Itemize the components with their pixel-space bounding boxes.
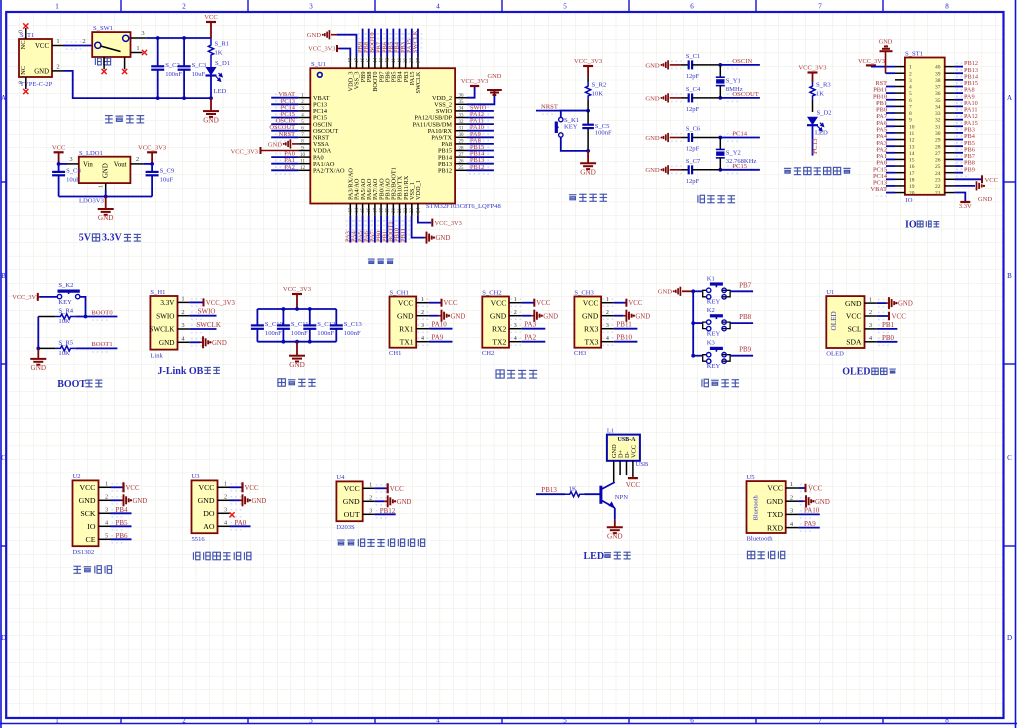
U1 right pin 35 VSS_2 bbox=[455, 103, 467, 105]
capacitor S_C9 10uF bbox=[151, 164, 153, 172]
U1 right pin 31 PA10/RX bbox=[455, 130, 467, 132]
svg-text:S_CH2: S_CH2 bbox=[482, 289, 501, 296]
svg-text:OUT: OUT bbox=[344, 510, 360, 519]
svg-text:1: 1 bbox=[790, 481, 793, 488]
U1 left pin 6 OSCOUT bbox=[298, 130, 310, 132]
key bus vertical wire bbox=[692, 291, 694, 355]
svg-text:25: 25 bbox=[459, 166, 465, 171]
ST1 left pin 19 bbox=[895, 185, 905, 187]
svg-text:2: 2 bbox=[790, 494, 793, 501]
svg-text:28: 28 bbox=[935, 144, 941, 150]
wire + net label PB11 bbox=[886, 92, 895, 94]
U1 top pin 48 VDD_3 bbox=[349, 57, 351, 69]
wire + net label PA1 bbox=[886, 158, 895, 160]
svg-text:VCC: VCC bbox=[767, 484, 783, 493]
svg-text:100nF: 100nF bbox=[344, 330, 361, 337]
wire + net label PB10 bbox=[614, 341, 638, 343]
svg-text:3: 3 bbox=[141, 30, 144, 37]
ST1 right pin 33 bbox=[945, 112, 955, 114]
svg-text:8MHz: 8MHz bbox=[726, 86, 743, 93]
svg-text:22: 22 bbox=[935, 184, 941, 190]
svg-text:25: 25 bbox=[935, 164, 941, 170]
wire + net label PB1 bbox=[877, 328, 898, 330]
svg-text:GND: GND bbox=[198, 496, 215, 505]
svg-text:30: 30 bbox=[459, 133, 465, 138]
svg-text:USB: USB bbox=[636, 461, 649, 468]
key K1 PB7 bbox=[703, 290, 707, 297]
svg-text:24: 24 bbox=[416, 208, 421, 214]
svg-text:PB11: PB11 bbox=[616, 321, 632, 329]
LED S_D1 bbox=[206, 67, 217, 76]
U1 left pin 2 PC13 bbox=[298, 103, 310, 105]
svg-text:Bluetooth: Bluetooth bbox=[753, 494, 760, 520]
left vertical bus of boot circuit bbox=[37, 317, 39, 349]
svg-text:PC14: PC14 bbox=[732, 131, 747, 138]
svg-text:3.3V: 3.3V bbox=[160, 299, 175, 307]
wire + net label VBAT bbox=[271, 97, 298, 99]
power flag VCC_3V3 at U1 VDD_2 pin36 bbox=[467, 86, 475, 98]
svg-text:D203S: D203S bbox=[336, 524, 355, 531]
svg-text:S_C6: S_C6 bbox=[686, 126, 701, 133]
ground GND at S_CH3 bbox=[614, 315, 624, 317]
svg-text:40: 40 bbox=[398, 58, 403, 64]
power flag VCC below USB bbox=[632, 476, 634, 478]
svg-text:D: D bbox=[1, 634, 6, 642]
light sensor module U3 5516 bbox=[192, 480, 218, 533]
wire + net label PA5 bbox=[886, 132, 895, 134]
wire + net label OSCOUT bbox=[271, 130, 298, 132]
svg-text:4: 4 bbox=[606, 336, 609, 342]
ST1 left pin 18 bbox=[895, 178, 905, 180]
wire + net label PA15 bbox=[955, 125, 963, 127]
wire + net label PA11 bbox=[955, 112, 963, 114]
svg-text:1: 1 bbox=[869, 296, 872, 303]
net label NRST wire bbox=[536, 110, 588, 112]
emitter wire to ground bbox=[614, 508, 616, 520]
svg-text:VCC: VCC bbox=[79, 483, 95, 492]
svg-text:PB6: PB6 bbox=[116, 532, 129, 540]
L1 pin stubs bbox=[613, 461, 615, 482]
svg-text:4: 4 bbox=[514, 336, 517, 342]
ST1 left pin 12 bbox=[895, 139, 905, 141]
svg-text:3: 3 bbox=[790, 508, 793, 515]
LDO regulator S_LDO1 bbox=[79, 157, 131, 183]
svg-text:TYPE-C-2P: TYPE-C-2P bbox=[20, 81, 53, 88]
ST1 right pin 31 bbox=[945, 125, 955, 127]
capacitor S_C2 100nF bbox=[157, 38, 159, 66]
wire + net label PB12 bbox=[467, 169, 494, 171]
power flag VCC_3V3 at H1 pin1 bbox=[189, 301, 202, 303]
wire + net label PC13 bbox=[886, 185, 895, 187]
title jing-zhen-dian-lu crystal bbox=[698, 195, 705, 203]
ground GND at H1 pin4 bbox=[189, 341, 200, 343]
svg-text:34: 34 bbox=[459, 107, 465, 112]
wire + net label PA10 bbox=[955, 105, 963, 107]
svg-text:29: 29 bbox=[459, 140, 465, 145]
svg-text:1: 1 bbox=[224, 481, 227, 488]
svg-text:K2: K2 bbox=[707, 307, 715, 314]
svg-text:S_H1: S_H1 bbox=[150, 289, 165, 296]
svg-text:GND: GND bbox=[580, 169, 596, 177]
LDO GND pin stub bbox=[105, 183, 107, 190]
svg-text:PB0: PB0 bbox=[882, 334, 895, 342]
svg-text:18: 18 bbox=[909, 177, 915, 183]
ST1 right pin 28 bbox=[945, 145, 955, 147]
svg-text:SWCLK: SWCLK bbox=[149, 326, 175, 334]
svg-text:2: 2 bbox=[105, 494, 108, 501]
svg-text:GND: GND bbox=[203, 116, 219, 124]
svg-text:6: 6 bbox=[690, 717, 694, 725]
svg-text:35: 35 bbox=[935, 98, 941, 104]
capacitor S_C8 10uF bbox=[58, 164, 60, 172]
U1 right pin 26 PB13 bbox=[455, 163, 467, 165]
svg-text:3: 3 bbox=[606, 323, 609, 329]
svg-text:27: 27 bbox=[459, 153, 465, 158]
ST1 left pin 1 bbox=[895, 66, 905, 68]
ground GND at S_CH1 bbox=[429, 315, 439, 317]
svg-text:GND: GND bbox=[607, 533, 623, 541]
crystal S_Y2 32.768KHz bbox=[718, 136, 722, 140]
svg-text:VCC: VCC bbox=[344, 484, 360, 493]
svg-text:1: 1 bbox=[55, 3, 59, 11]
T1 pin 1 VCC stub bbox=[52, 45, 64, 47]
svg-text:L1: L1 bbox=[607, 428, 614, 435]
wire + vertical net label PA15 bbox=[411, 29, 413, 57]
svg-text:U2: U2 bbox=[73, 473, 81, 480]
U1 bottom pin 15 PA5/AO bbox=[362, 204, 364, 216]
LDO pin 2 stub bbox=[130, 163, 143, 165]
svg-text:S_C7: S_C7 bbox=[686, 158, 701, 165]
svg-text:RX2: RX2 bbox=[492, 324, 507, 333]
svg-text:S_R5: S_R5 bbox=[58, 339, 73, 346]
svg-text:GND: GND bbox=[815, 499, 830, 506]
title lan-ya-mo-kuai bluetooth bbox=[747, 551, 754, 558]
svg-text:4: 4 bbox=[909, 85, 912, 91]
svg-text:10K: 10K bbox=[58, 318, 70, 325]
svg-text:100nF: 100nF bbox=[265, 330, 282, 337]
svg-text:10uF: 10uF bbox=[160, 176, 174, 183]
capacitor S_C12 100nF bbox=[309, 309, 311, 325]
key K2 PB8 bbox=[703, 322, 707, 329]
svg-text:12: 12 bbox=[300, 166, 306, 171]
resistor S_R5 10K to BOOT1 bbox=[38, 347, 55, 349]
power flag VCC at S_CH1 bbox=[429, 302, 441, 304]
svg-text:27: 27 bbox=[935, 151, 941, 157]
svg-text:16: 16 bbox=[367, 208, 372, 214]
svg-text:VDD_1: VDD_1 bbox=[415, 180, 422, 200]
svg-text:TX3: TX3 bbox=[584, 337, 598, 346]
svg-text:36: 36 bbox=[459, 94, 465, 99]
wire + net label PB12 bbox=[955, 66, 963, 68]
svg-text:PB12: PB12 bbox=[470, 164, 484, 171]
svg-text:K1: K1 bbox=[707, 275, 715, 282]
resistor S_R3 1K bbox=[810, 82, 815, 100]
svg-text:1: 1 bbox=[514, 297, 517, 303]
svg-text:8: 8 bbox=[909, 111, 912, 117]
ground GND of LDO circuit bbox=[105, 197, 107, 210]
svg-text:32.768KHz: 32.768KHz bbox=[726, 158, 757, 165]
wire + net label PB6 bbox=[955, 152, 963, 154]
svg-text:VCC_3V3: VCC_3V3 bbox=[574, 58, 603, 65]
svg-text:2: 2 bbox=[182, 3, 186, 11]
capacitor S_C13 100nF bbox=[335, 309, 337, 325]
wire + net label PB9 bbox=[955, 172, 963, 174]
svg-text:22: 22 bbox=[404, 208, 409, 214]
svg-text:24: 24 bbox=[935, 171, 941, 177]
svg-text:CH1: CH1 bbox=[389, 350, 401, 357]
wire + net label PA6 bbox=[886, 125, 895, 127]
svg-text:12pF: 12pF bbox=[686, 146, 700, 153]
wire + net label PA2 bbox=[271, 169, 298, 171]
SW1 bottom stubs no-connect bbox=[103, 57, 105, 69]
svg-text:GND: GND bbox=[645, 167, 660, 174]
svg-text:100nF: 100nF bbox=[317, 330, 334, 337]
svg-text:100nF: 100nF bbox=[595, 129, 612, 136]
SW1 pin 1 stub no-connect bbox=[131, 52, 143, 54]
title cheng-xu-yun-xing-zhi-shi-deng bbox=[784, 168, 791, 173]
svg-text:5V: 5V bbox=[79, 233, 92, 244]
wire + net label PA10 bbox=[798, 513, 819, 515]
svg-text:S_ST1: S_ST1 bbox=[905, 51, 923, 58]
svg-text:37: 37 bbox=[416, 58, 421, 64]
svg-text:TX1: TX1 bbox=[400, 337, 414, 346]
svg-text:VCC: VCC bbox=[536, 300, 550, 307]
ST1 right pin 34 bbox=[945, 105, 955, 107]
svg-text:PB5: PB5 bbox=[116, 519, 129, 527]
power flag VCC_3V3 at U1 VDD_1 pin24 bbox=[418, 216, 431, 223]
svg-text:A: A bbox=[1, 94, 6, 102]
svg-text:NPN: NPN bbox=[615, 494, 628, 501]
U1 bottom pin 19 PB1/AO bbox=[386, 204, 388, 216]
wire + net label PA2 bbox=[522, 341, 546, 343]
svg-text:26: 26 bbox=[935, 158, 941, 164]
wire + net label PA8 bbox=[467, 143, 494, 145]
U1 right pin 25 PB12 bbox=[455, 169, 467, 171]
svg-text:VCC: VCC bbox=[892, 313, 907, 321]
svg-text:VCC: VCC bbox=[808, 485, 823, 493]
svg-text:GND: GND bbox=[978, 196, 993, 203]
svg-text:GND: GND bbox=[397, 311, 414, 320]
svg-text:GND: GND bbox=[159, 339, 175, 347]
wire + net label PA12 bbox=[955, 119, 963, 121]
svg-text:VCC_3V3: VCC_3V3 bbox=[283, 286, 312, 293]
wire + net label VBAT bbox=[886, 192, 895, 194]
svg-text:15: 15 bbox=[361, 208, 366, 214]
svg-text:2: 2 bbox=[82, 38, 85, 45]
svg-text:SWCLK: SWCLK bbox=[415, 71, 422, 93]
capacitor S_C4 12pF bbox=[681, 97, 689, 99]
svg-text:LED: LED bbox=[214, 88, 227, 95]
U1 left pin 4 PC15 bbox=[298, 117, 310, 119]
U1 right pin 27 PB14 bbox=[455, 156, 467, 158]
svg-text:CH3: CH3 bbox=[574, 350, 587, 357]
svg-text:1: 1 bbox=[606, 297, 609, 303]
svg-text:VCC_3V3: VCC_3V3 bbox=[206, 300, 236, 307]
svg-text:35: 35 bbox=[459, 100, 465, 105]
svg-text:VCC_3V3: VCC_3V3 bbox=[308, 46, 335, 53]
svg-text:VCC: VCC bbox=[35, 43, 49, 50]
switch label kai-guan bbox=[95, 58, 101, 65]
svg-text:GND: GND bbox=[543, 313, 558, 320]
svg-text:PA3: PA3 bbox=[524, 321, 536, 329]
svg-text:19: 19 bbox=[909, 184, 915, 190]
ST1 left pin 14 bbox=[895, 152, 905, 154]
svg-text:VCC: VCC bbox=[985, 177, 999, 184]
svg-text:34: 34 bbox=[935, 104, 941, 110]
svg-text:SCL: SCL bbox=[848, 325, 862, 334]
ST1 left pin 17 bbox=[895, 172, 905, 174]
OLED module U1 body bbox=[826, 296, 864, 348]
svg-text:39: 39 bbox=[404, 58, 409, 64]
svg-text:STM32F103C8T6_LQFP48: STM32F103C8T6_LQFP48 bbox=[426, 203, 501, 210]
wire + vertical net label PB10 bbox=[399, 216, 401, 243]
wire + vertical net label PB6 bbox=[386, 29, 388, 57]
svg-text:5: 5 bbox=[563, 3, 567, 11]
svg-text:1K: 1K bbox=[215, 50, 223, 57]
svg-text:PB8: PB8 bbox=[739, 313, 752, 321]
svg-text:3.3V: 3.3V bbox=[959, 203, 972, 210]
svg-text:VBAT: VBAT bbox=[871, 186, 888, 193]
svg-text:PA9: PA9 bbox=[432, 334, 444, 342]
svg-text:26: 26 bbox=[459, 160, 465, 165]
svg-text:Link: Link bbox=[150, 353, 163, 360]
svg-text:100nF: 100nF bbox=[165, 71, 182, 78]
wire + net label PB15 bbox=[955, 85, 963, 87]
svg-text:14: 14 bbox=[909, 151, 915, 157]
ST1 right pin 29 bbox=[945, 139, 955, 141]
ground GND at ST1 pin22 bbox=[955, 185, 975, 187]
svg-text:47: 47 bbox=[355, 58, 360, 64]
U1 top pin 40 PB4 bbox=[399, 57, 401, 69]
svg-text:VCC: VCC bbox=[245, 485, 259, 492]
U1 right pin 36 VDD_2 bbox=[455, 97, 467, 99]
svg-text:3: 3 bbox=[181, 322, 184, 329]
svg-text:3: 3 bbox=[869, 322, 872, 329]
U1 left pin 5 OSCIN bbox=[298, 123, 310, 125]
svg-text:13: 13 bbox=[349, 208, 354, 214]
svg-text:1: 1 bbox=[421, 297, 424, 303]
svg-text:1K: 1K bbox=[816, 91, 824, 98]
ground GND of power circuit bbox=[210, 98, 212, 111]
ground GND at U5 pin2 bbox=[798, 500, 803, 502]
wire + vertical net label PA3 bbox=[349, 216, 351, 243]
svg-text:3.3V: 3.3V bbox=[102, 233, 123, 244]
svg-text:DO: DO bbox=[203, 509, 215, 518]
svg-text:33: 33 bbox=[459, 113, 465, 118]
ST1 left pin 5 bbox=[895, 92, 905, 94]
wire + net label PA1 bbox=[271, 163, 298, 165]
svg-text:S_C9: S_C9 bbox=[160, 167, 175, 174]
svg-text:VCC: VCC bbox=[198, 483, 214, 492]
svg-text:RXD: RXD bbox=[767, 523, 784, 532]
U1 left pin 10 PA0 bbox=[298, 156, 310, 158]
ground GND boot circuit bbox=[37, 348, 39, 359]
svg-text:2: 2 bbox=[224, 494, 227, 501]
svg-text:6: 6 bbox=[909, 98, 912, 104]
U1 right pin 33 PA12/USB/DP bbox=[455, 117, 467, 119]
wire + net label SWIO bbox=[189, 315, 216, 317]
wire + vertical net label PB5 bbox=[392, 29, 394, 57]
wire + net label PA8 bbox=[955, 92, 963, 94]
svg-text:2: 2 bbox=[56, 64, 59, 71]
U1 left pin 9 VDDA bbox=[298, 150, 310, 152]
resistor S_R1 1K bbox=[208, 38, 213, 62]
svg-text:C: C bbox=[1007, 454, 1012, 462]
U1 bottom pin 18 PB0/AO bbox=[380, 204, 382, 216]
wire and net label PC14 bbox=[720, 137, 760, 139]
capacitor S_C5 100nF bbox=[587, 111, 589, 125]
U1 bottom pin 14 PA4/AO bbox=[355, 204, 357, 216]
ST1 left pin 16 bbox=[895, 165, 905, 167]
svg-text:S_R2: S_R2 bbox=[592, 82, 607, 89]
header S_H1 J-Link bbox=[150, 296, 177, 350]
wire T1 to SW1 bbox=[64, 45, 93, 47]
svg-text:VCC_3V3: VCC_3V3 bbox=[12, 294, 39, 301]
wire + net label PA3 bbox=[522, 328, 546, 330]
ST1 right pin 30 bbox=[945, 132, 955, 134]
svg-text:KEY: KEY bbox=[707, 330, 721, 337]
svg-text:S_Y2: S_Y2 bbox=[726, 150, 741, 157]
crystal S_Y1 8MHz bbox=[718, 63, 722, 67]
svg-text:12pF: 12pF bbox=[686, 178, 700, 185]
wire + net label PB0 bbox=[877, 341, 898, 343]
wire + net label PC14 bbox=[271, 110, 298, 112]
U1 top pin 38 PA15 bbox=[411, 57, 413, 69]
ST1 left pin 15 bbox=[895, 158, 905, 160]
svg-text:S_K2: S_K2 bbox=[58, 282, 73, 289]
svg-text:S_LDO1: S_LDO1 bbox=[79, 150, 103, 157]
svg-text:GND: GND bbox=[31, 364, 47, 372]
ground GND filter bbox=[296, 342, 298, 356]
connector S_ST1 body bbox=[905, 58, 945, 195]
U1 left pin 11 PA1/AO bbox=[298, 163, 310, 165]
svg-text:KEY: KEY bbox=[58, 299, 72, 306]
svg-text:S_C3: S_C3 bbox=[192, 62, 207, 69]
svg-text:VCC: VCC bbox=[846, 312, 862, 321]
svg-text:B: B bbox=[1007, 272, 1012, 280]
ST1 left pin 13 bbox=[895, 145, 905, 147]
svg-text:37: 37 bbox=[935, 85, 941, 91]
svg-text:5516: 5516 bbox=[192, 536, 206, 543]
svg-text:5: 5 bbox=[909, 91, 912, 97]
wire + net label SWIO bbox=[467, 110, 494, 112]
svg-text:DS1302: DS1302 bbox=[73, 549, 95, 556]
wire + vertical net label PA4 bbox=[355, 216, 357, 243]
svg-text:VCC: VCC bbox=[126, 485, 140, 492]
svg-text:PB9: PB9 bbox=[739, 346, 752, 354]
svg-text:PA10: PA10 bbox=[432, 321, 448, 329]
wire + net label OSCIN bbox=[271, 123, 298, 125]
serial header S_CH1 bbox=[390, 297, 417, 348]
svg-text:19: 19 bbox=[386, 208, 391, 214]
svg-text:GND: GND bbox=[103, 163, 110, 178]
svg-text:10uF: 10uF bbox=[66, 176, 80, 183]
capacitor S_C6 12pF bbox=[681, 137, 689, 139]
svg-text:29: 29 bbox=[935, 138, 941, 144]
svg-text:OLED: OLED bbox=[842, 367, 870, 378]
svg-text:S_C4: S_C4 bbox=[686, 86, 701, 93]
svg-text:2: 2 bbox=[869, 309, 872, 316]
svg-text:17: 17 bbox=[909, 171, 915, 177]
switch S_SW1 bbox=[92, 32, 130, 57]
bottom rail of LDO circuit bbox=[59, 196, 153, 198]
svg-text:LED: LED bbox=[815, 130, 828, 137]
ground GND at S_CH2 bbox=[522, 315, 532, 317]
wire + net label PB15 bbox=[467, 150, 494, 152]
svg-text:D: D bbox=[1007, 634, 1012, 642]
svg-text:1K: 1K bbox=[569, 486, 577, 493]
svg-text:2: 2 bbox=[181, 309, 184, 316]
